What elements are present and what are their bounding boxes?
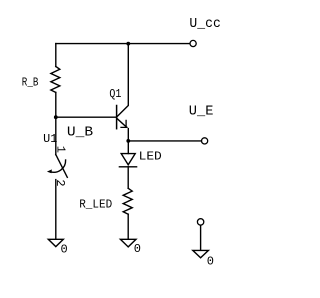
switch wire bottom (55, 180, 57, 239)
svg-text:2: 2 (53, 179, 67, 186)
wire R_B top (55, 44, 57, 67)
terminal U_cc circle (190, 40, 196, 46)
svg-text:0: 0 (207, 254, 214, 268)
resistor R_LED (123, 188, 132, 214)
terminal circle right (197, 219, 203, 225)
svg-text:R_LED: R_LED (79, 198, 112, 212)
svg-text:0: 0 (61, 242, 68, 256)
switch actuator arc (50, 160, 66, 172)
svg-text:R_B: R_B (22, 76, 39, 90)
wire LED to R_LED (127, 167, 129, 189)
wire emitter down (127, 129, 129, 154)
switch U1 wire top (55, 117, 57, 154)
diode LED cathode bar (119, 166, 136, 168)
switch blade (56, 155, 68, 178)
diode LED triangle (121, 154, 135, 165)
switch arrowhead (47, 169, 52, 173)
resistor R_B (51, 67, 60, 93)
svg-text:U1: U1 (43, 133, 57, 146)
transistor Q1 emitter (117, 118, 127, 127)
wire base (56, 116, 117, 118)
transistor Q1 emitter arrow (121, 120, 127, 127)
svg-text:U_B: U_B (67, 125, 93, 140)
node junction dot emitter (126, 139, 130, 143)
ground left (48, 239, 63, 246)
svg-text:LED: LED (139, 150, 162, 164)
wire R_LED to ground (127, 214, 129, 238)
ground right (193, 250, 209, 257)
ground middle (120, 239, 136, 247)
node junction dot base (54, 115, 58, 119)
svg-text:U_cc: U_cc (189, 17, 220, 32)
transistor Q1 base bar (116, 106, 118, 129)
node junction dot top (126, 42, 130, 46)
svg-text:0: 0 (134, 242, 141, 256)
svg-text:Q1: Q1 (109, 87, 121, 101)
wire R_B bottom (55, 92, 57, 117)
transistor Q1 collector (117, 44, 128, 117)
wire top rail (56, 43, 190, 45)
svg-text:1: 1 (53, 146, 67, 153)
wire terminal to ground right (200, 225, 202, 250)
svg-text:U_E: U_E (189, 104, 214, 119)
wire U_E (128, 140, 201, 142)
terminal U_E circle (202, 138, 208, 144)
